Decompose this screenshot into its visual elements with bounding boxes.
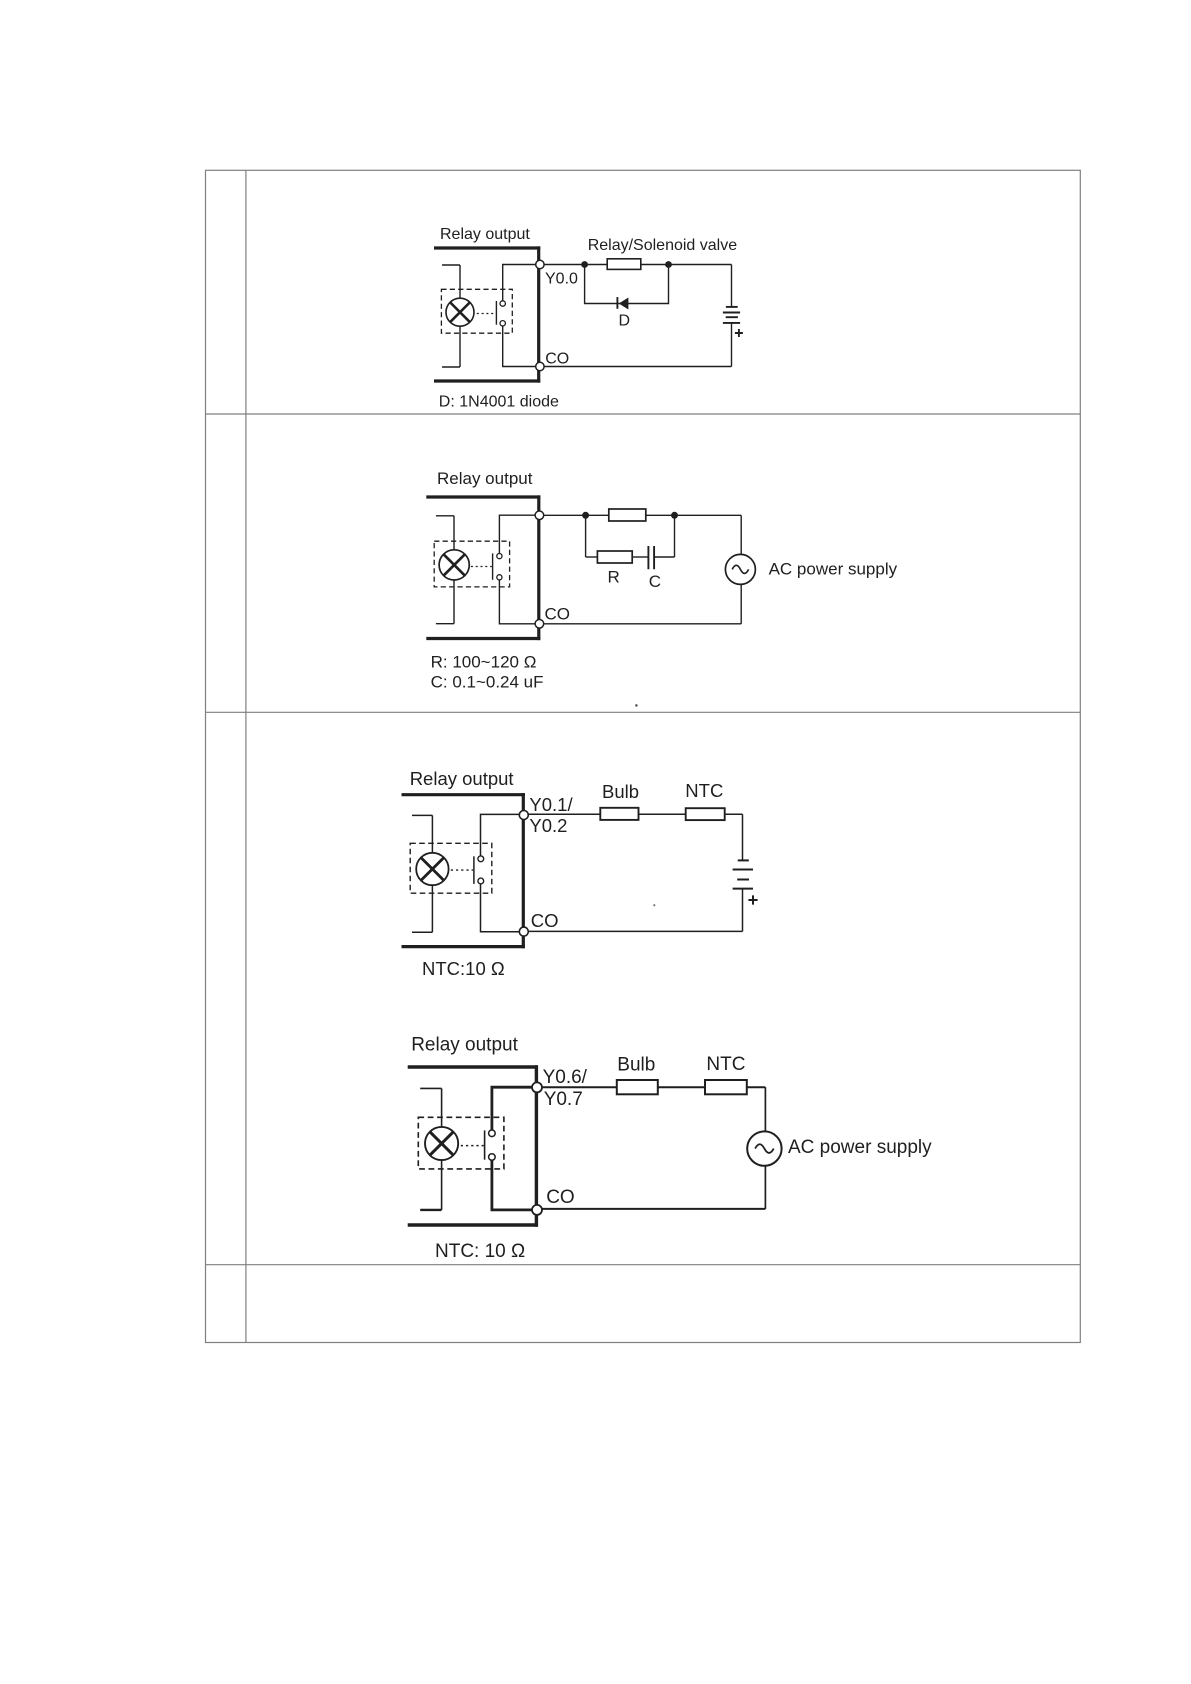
- PLC output bus bottom (thick): [408, 1223, 538, 1226]
- speck artifact: [635, 704, 638, 707]
- svg-text:Relay output: Relay output: [440, 226, 530, 243]
- PLC output bus top (thick): [408, 1065, 538, 1068]
- wire left stub bottom: [436, 623, 454, 625]
- wire left stub top: [420, 1087, 441, 1089]
- AC source circle: [747, 1131, 781, 1165]
- AC source circle: [725, 554, 755, 584]
- PLC output bus bottom (thick): [402, 945, 525, 948]
- wire Y to bulb: [542, 1086, 765, 1088]
- svg-text:Y0.7: Y0.7: [544, 1089, 583, 1110]
- relay/solenoid coil box: [607, 259, 641, 270]
- wire left stub top: [436, 515, 454, 517]
- resistor R box: [597, 551, 632, 563]
- PLC output bus vertical (thick): [535, 1065, 538, 1226]
- wire contact to Y0.0 terminal: [503, 265, 537, 301]
- wire left stub bottom: [420, 1209, 441, 1211]
- wire lamp top: [459, 265, 461, 298]
- contact point top: [500, 301, 505, 306]
- PLC output bus top (thick): [426, 495, 540, 498]
- wire lamp top: [431, 815, 433, 853]
- PLC output bus bottom (thick): [434, 379, 540, 382]
- terminal Y0.6/Y0.7: [532, 1082, 542, 1092]
- contact moving bar: [484, 1130, 486, 1159]
- diode D cathode bar: [616, 297, 618, 309]
- wire left stub bottom: [412, 931, 432, 933]
- svg-text:Y0.0: Y0.0: [545, 270, 578, 287]
- PLC output bus top (thick): [434, 246, 540, 249]
- svg-text:D: D: [619, 313, 631, 330]
- wire Y to snubber network: [544, 514, 741, 516]
- svg-text:NTC:10 Ω: NTC:10 Ω: [422, 958, 505, 979]
- dotted actuation link: [451, 869, 473, 871]
- wire lamp bottom: [431, 885, 433, 932]
- diode D triangle: [619, 298, 629, 310]
- wire Y to bulb: [528, 813, 742, 815]
- wire contact to Y terminal: [481, 814, 520, 855]
- svg-text:Bulb: Bulb: [602, 781, 639, 802]
- contact moving bar: [495, 301, 497, 325]
- speck artifact: [653, 904, 655, 906]
- svg-text:CO: CO: [545, 605, 571, 624]
- PLC output bus vertical (thick): [537, 246, 540, 382]
- wire snubber branch left: [585, 515, 587, 557]
- wire battery to CO: [742, 889, 744, 932]
- wire Y0.0 to load: [544, 264, 731, 266]
- terminal Y0.0: [536, 260, 544, 268]
- bulb box: [600, 808, 638, 820]
- wire C to junction: [654, 556, 674, 558]
- svg-text:Relay output: Relay output: [437, 469, 533, 488]
- relay dashed enclosure: [441, 289, 512, 333]
- wire left stub bottom: [442, 366, 460, 368]
- wire contact to Y terminal (thick): [492, 1087, 532, 1130]
- bulb box: [617, 1080, 658, 1094]
- svg-text:R: 100~120 Ω: R: 100~120 Ω: [431, 652, 537, 671]
- wire snubber to R: [586, 556, 598, 558]
- svg-text:Bulb: Bulb: [617, 1054, 655, 1075]
- PLC output bus top (thick): [402, 793, 525, 796]
- contact point bottom: [489, 1154, 496, 1161]
- battery plus sign: [748, 895, 757, 904]
- svg-text:Y0.1/: Y0.1/: [529, 794, 573, 815]
- wire contact to CO terminal: [503, 326, 537, 366]
- svg-text:Relay output: Relay output: [410, 768, 514, 789]
- terminal CO: [532, 1205, 542, 1215]
- terminal Y output: [535, 511, 544, 520]
- svg-text:Y0.2: Y0.2: [529, 815, 567, 836]
- wire lamp top: [453, 516, 455, 550]
- wire load to battery: [731, 265, 733, 308]
- wire contact to CO terminal: [481, 884, 520, 932]
- svg-text:CO: CO: [531, 910, 559, 931]
- terminal CO: [519, 927, 528, 936]
- lamp (relay coil indicator): [425, 1127, 458, 1160]
- svg-text:Y0.6/: Y0.6/: [543, 1067, 588, 1088]
- svg-text:Relay/Solenoid valve: Relay/Solenoid valve: [588, 237, 738, 254]
- contact point bottom: [500, 321, 505, 326]
- wire CO return: [542, 1208, 765, 1210]
- table grid: [206, 170, 1081, 1342]
- wire diode branch: [585, 265, 669, 304]
- wire CO return: [528, 930, 742, 932]
- contact point top: [489, 1130, 496, 1137]
- wire to AC source: [740, 515, 742, 554]
- wire lamp bottom: [453, 580, 455, 624]
- dotted actuation link: [471, 566, 492, 568]
- wire left stub top: [442, 264, 460, 266]
- svg-text:C: C: [649, 572, 661, 591]
- junction node right: [671, 512, 678, 519]
- wire battery to CO: [731, 323, 733, 367]
- svg-text:D: 1N4001 diode: D: 1N4001 diode: [439, 393, 559, 410]
- PLC output bus vertical (thick): [522, 793, 525, 948]
- svg-text:AC power supply: AC power supply: [769, 559, 898, 578]
- load coil box: [609, 509, 646, 521]
- NTC resistor box: [705, 1080, 747, 1094]
- PLC output bus bottom (thick): [426, 637, 540, 640]
- wire NTC to battery: [742, 814, 744, 860]
- wire contact to CO terminal: [499, 580, 535, 624]
- AC sine wave: [755, 1144, 774, 1153]
- wire CO return: [544, 623, 741, 625]
- wire lamp bottom: [459, 326, 461, 367]
- wire left stub top: [412, 814, 432, 816]
- junction node left: [582, 512, 589, 519]
- NTC resistor box: [686, 808, 725, 820]
- wire AC to CO: [764, 1166, 766, 1209]
- terminal Y0.1/Y0.2: [519, 811, 528, 820]
- svg-text:NTC: NTC: [685, 780, 723, 801]
- wire contact to Y terminal: [499, 515, 535, 553]
- svg-text:CO: CO: [546, 1187, 575, 1208]
- capacitor C plates: [648, 546, 654, 569]
- lamp (relay coil indicator): [416, 853, 448, 885]
- contact moving bar: [473, 856, 475, 884]
- relay dashed enclosure: [434, 541, 509, 587]
- junction node left: [581, 261, 588, 268]
- battery B1: [723, 307, 740, 323]
- wire lamp bottom: [441, 1160, 443, 1210]
- battery plus sign: [735, 329, 743, 337]
- wire snubber branch right: [674, 515, 676, 557]
- relay dashed enclosure: [410, 843, 492, 893]
- wire NTC to AC source: [764, 1087, 766, 1132]
- svg-text:Relay output: Relay output: [411, 1035, 518, 1056]
- wire lamp top: [441, 1088, 443, 1127]
- battery B2: [733, 860, 753, 888]
- svg-text:R: R: [608, 567, 620, 586]
- svg-text:AC power supply: AC power supply: [788, 1137, 932, 1158]
- wire R to C: [632, 556, 648, 558]
- svg-text:CO: CO: [545, 350, 569, 367]
- svg-text:C: 0.1~0.24 uF: C: 0.1~0.24 uF: [431, 673, 544, 692]
- svg-text:NTC: NTC: [706, 1054, 745, 1075]
- contact point bottom: [478, 878, 484, 884]
- dotted actuation link: [477, 313, 496, 315]
- contact point top: [497, 554, 502, 559]
- wire AC to CO: [740, 584, 742, 623]
- dotted actuation link: [461, 1145, 484, 1147]
- contact moving bar: [492, 553, 494, 579]
- contact point top: [478, 856, 484, 862]
- relay dashed enclosure: [418, 1117, 504, 1169]
- svg-text:NTC: 10 Ω: NTC: 10 Ω: [435, 1241, 525, 1262]
- wire CO return: [544, 366, 731, 368]
- terminal CO: [536, 362, 544, 370]
- lamp (relay coil indicator): [439, 550, 469, 580]
- AC sine wave: [732, 565, 748, 573]
- contact point bottom: [497, 575, 502, 580]
- lamp (relay coil indicator): [446, 298, 474, 326]
- wire contact to CO terminal (thick): [492, 1160, 532, 1210]
- terminal CO: [535, 620, 544, 629]
- junction node right: [665, 261, 672, 268]
- PLC output bus vertical (thick): [537, 495, 540, 640]
